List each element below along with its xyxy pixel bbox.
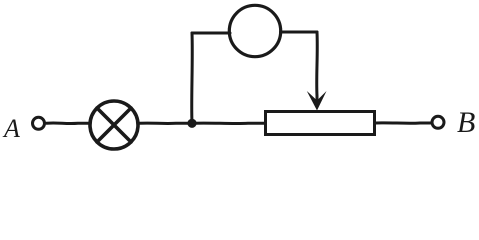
wire lamp to junction [140,122,192,126]
wire junction to rheostat [192,122,265,126]
terminal A [33,117,45,129]
meter P1 [229,5,280,56]
wire down to wiper arrow [315,32,319,103]
wire junction up to meter branch [190,33,194,123]
rheostat R1 [266,112,375,135]
junction node [187,119,196,128]
wire terminal A to lamp [47,122,91,126]
lamp L1 [90,101,138,149]
wire rheostat to terminal B [376,121,431,125]
wire meter to right corner [281,31,318,34]
wire branch corner to meter [192,32,230,35]
svg-text:A: A [2,114,20,143]
wiper arrow onto rheostat [307,91,327,111]
svg-text:B: B [457,106,475,139]
terminal B [432,116,444,128]
